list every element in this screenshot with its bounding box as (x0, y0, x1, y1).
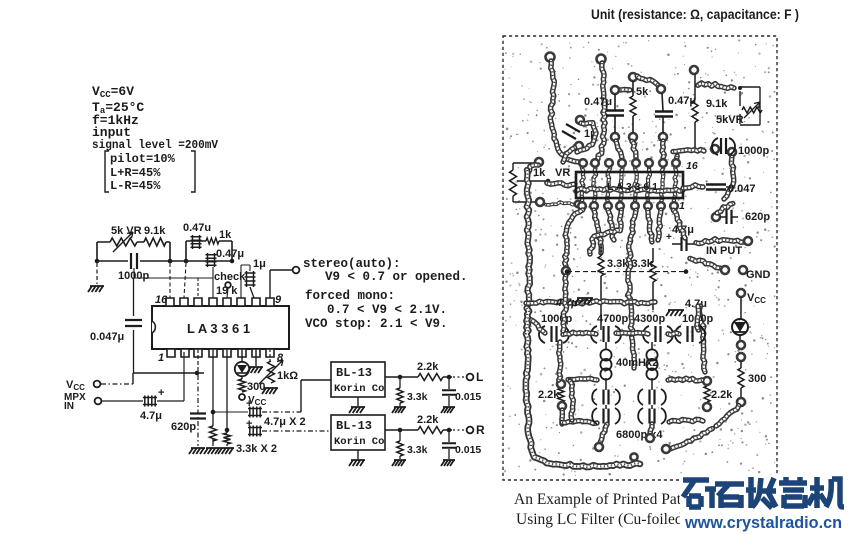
pcb trace 9.1k bottom row (673, 150, 704, 152)
pad pin12 top (632, 159, 640, 167)
wire 3.3k R (399, 430, 401, 459)
capacitor 6800p pcb 606-397 (592, 389, 597, 405)
svg-text:1kΩ: 1kΩ (277, 370, 298, 382)
svg-text:620p: 620p (745, 211, 770, 223)
capacitor 1u pcb (562, 124, 580, 139)
pcb trace caprow c (668, 333, 679, 335)
wire pin6 (241, 349, 243, 379)
svg-text:VCC: VCC (66, 379, 85, 392)
pad 6800 bot L (595, 443, 603, 451)
pad cap047R top (657, 85, 665, 93)
capacitor 4.7u x2 first (248, 407, 262, 418)
wire led col (740, 297, 741, 341)
pcb trace hook to cap (617, 87, 630, 93)
pad vcc (737, 289, 745, 297)
pad gnd2 (739, 266, 747, 274)
capacitor 0.47u pcb right (655, 112, 673, 117)
pad pin16 top (579, 159, 587, 167)
svg-text:+: + (158, 387, 164, 399)
svg-text:9.1k: 9.1k (706, 98, 728, 110)
ground row1 (575, 298, 593, 304)
pcb trace under IC pin14 (607, 168, 610, 202)
terminal VCC (94, 381, 101, 388)
resistor 5k pcb (630, 96, 636, 116)
inductor 40mH x606 (600, 349, 611, 379)
pcb trace under IC pin11 (647, 168, 650, 202)
U1 notch (152, 321, 155, 333)
svg-text:4.7μ: 4.7μ (140, 410, 162, 422)
pad pin10 top (659, 159, 667, 167)
node D (230, 259, 235, 264)
svg-text:0.47u: 0.47u (183, 222, 211, 234)
resistor 2.2k L (418, 374, 443, 381)
pad 1000p right (728, 148, 736, 156)
capacitor 620p pcb (727, 210, 732, 224)
resistor 3.3k first (210, 426, 217, 441)
ground BL-13 L (349, 407, 365, 413)
pcb trace caprow a (563, 332, 596, 334)
pcb stub pin13 (616, 141, 622, 158)
pcb trace pin5 hook (628, 210, 636, 368)
svg-text:0.47μ: 0.47μ (584, 96, 612, 108)
node 3.3k left (565, 269, 570, 274)
svg-text:VCO stop: 2.1 < V9.: VCO stop: 2.1 < V9. (305, 317, 448, 331)
wire BLL out (385, 376, 452, 378)
pcb trace row y423 (562, 421, 597, 424)
resistor 300 (239, 379, 246, 392)
pad 5k top (629, 73, 637, 81)
svg-text:stereo(auto):: stereo(auto): (303, 257, 401, 271)
terminal OL (467, 374, 474, 381)
resistor 1k ohm VR (268, 361, 275, 383)
capacitor 0.047 pcb (706, 185, 726, 190)
bracket left (105, 151, 109, 192)
pcb trace 1u left (563, 148, 575, 162)
resistor 9.1k pcb (692, 74, 698, 148)
capacitor 1000p (131, 253, 137, 269)
ground 1k ohm (262, 388, 278, 394)
pcb trace caprow left (531, 320, 545, 333)
svg-text:1μ: 1μ (253, 258, 266, 270)
terminal MPX IN (95, 398, 102, 405)
wire pin3 down (197, 349, 199, 373)
pcb trace through IC (576, 188, 683, 191)
wire pin13 (212, 278, 214, 298)
pcb trace row y380 left (568, 378, 597, 380)
ground 0.015 L (441, 407, 455, 413)
svg-text:4300p: 4300p (634, 313, 665, 325)
svg-text:pilot=10%: pilot=10% (110, 152, 176, 166)
svg-text:0.047μ: 0.047μ (90, 331, 124, 343)
ground 3.3k L (392, 407, 406, 413)
svg-text:+: + (246, 418, 252, 430)
node 1kVR wiper (546, 179, 551, 184)
svg-text:1: 1 (679, 200, 685, 212)
svg-text:0.015: 0.015 (455, 391, 481, 403)
svg-text:check: check (214, 271, 246, 283)
pcb trace row y184 (547, 183, 575, 186)
node R2 (447, 428, 452, 433)
pcb trace ic right (683, 185, 703, 188)
wire cap2 to BL2 (262, 430, 331, 432)
svg-text:forced mono:: forced mono: (305, 289, 395, 303)
wire 620p dashdot (197, 375, 199, 446)
pcb stub pin10 (662, 141, 664, 158)
pad pin6 bottom (644, 202, 652, 210)
wire check (227, 288, 228, 298)
svg-text:0.7 < V9 < 2.1V.: 0.7 < V9 < 2.1V. (327, 303, 447, 317)
wire pin8 dash (269, 349, 271, 361)
wire 1u top (241, 265, 250, 298)
pad led bot1 (737, 341, 745, 349)
pad diag end (662, 445, 670, 453)
pcb trace pin6 down (648, 210, 652, 242)
pad pin3 bottom (604, 202, 612, 210)
resistor 5kVR pcb (742, 107, 762, 113)
VR arrow on 5k (113, 232, 133, 252)
capacitor 0.015 L (442, 390, 456, 395)
pad 2.2k R top (703, 377, 711, 385)
wire top row (97, 242, 170, 261)
svg-text:VCC: VCC (747, 292, 766, 305)
pad 1kvr bot (536, 198, 544, 206)
node 3.3k-2 (225, 428, 230, 433)
capacitor 6800p pcb 606-416 (592, 408, 597, 424)
capacitor 4.7u pcb input (682, 237, 687, 251)
svg-text:Korin Co: Korin Co (334, 383, 384, 395)
capacitor 1000p pcb x690 (675, 326, 681, 343)
pcb trace pin3 down (608, 210, 614, 240)
svg-text:1k: 1k (533, 167, 546, 179)
pcb trace pin2 down (594, 210, 601, 253)
svg-text:Korin Co: Korin Co (334, 436, 384, 448)
capacitor 6800p pcb 652-416 (638, 408, 643, 424)
pcb trace right col (699, 306, 705, 372)
pcb trace 300 down (716, 406, 739, 426)
terminal OR (467, 427, 474, 434)
ground 3.3k-1 (204, 448, 220, 454)
check terminal (225, 282, 231, 288)
wire 5kVR loop (740, 87, 760, 125)
svg-text:Unit (resistance: Ω, capacitan: Unit (resistance: Ω, capacitance: F ) (591, 6, 799, 22)
capacitor 4300p pcb x658 (643, 326, 649, 343)
svg-text:L A 3 3 6 1: L A 3 3 6 1 (607, 181, 658, 193)
svg-text:5kVR: 5kVR (716, 114, 744, 126)
pcb trace pin1col down (563, 276, 567, 331)
pad P2 (597, 55, 606, 64)
pcb trace pin7 down (658, 210, 661, 240)
pcb trace left col upper (527, 170, 530, 305)
wire pin7 (255, 349, 257, 366)
wire thin row y278 (134, 267, 213, 278)
pcb trace caprow b (616, 333, 648, 334)
resistor 9.1k (144, 238, 166, 246)
svg-text:16: 16 (155, 294, 168, 306)
capacitor 0.47u second (206, 253, 217, 267)
pad 620p left (712, 213, 720, 221)
wire 0.047 left col (133, 278, 135, 373)
wire gnd dashdot (96, 263, 98, 284)
wire 0.015 L (448, 377, 450, 406)
svg-text:1000p: 1000p (541, 313, 572, 325)
wire BLR out (385, 429, 452, 431)
pad P1 (546, 53, 555, 62)
pad 9.1k top (690, 66, 698, 74)
svg-text:VR: VR (555, 167, 570, 179)
capacitor 1u (245, 271, 256, 287)
pad 2.2k L bot (558, 402, 566, 410)
svg-text:300: 300 (748, 373, 766, 385)
pcb trace 1u arc (577, 123, 596, 152)
pcb trace 6800 bot R (650, 424, 652, 434)
pad pin7 bottom (657, 202, 665, 210)
svg-text:L+R=45%: L+R=45% (110, 166, 161, 180)
svg-text:4.7μ X 2: 4.7μ X 2 (264, 416, 306, 428)
resistor 5k VR (110, 238, 137, 246)
wire vcc up (133, 373, 204, 384)
capacitor 4.7u input (143, 396, 157, 407)
wire mpx (102, 352, 184, 401)
svg-text:6800p x4: 6800p x4 (616, 429, 663, 441)
pad 300 bot (737, 398, 745, 406)
resistor 3.3k pcb 2 (650, 262, 656, 282)
capacitor 4.7u x2 second (248, 426, 262, 437)
pcb trace under IC pin12 (634, 168, 637, 202)
svg-text:IN PUT: IN PUT (706, 245, 742, 257)
wire row1 to cap (213, 411, 248, 413)
U1 top pins (166, 298, 274, 306)
pcb trace 2.2kL up (559, 342, 561, 380)
pad 1kvr top (535, 158, 543, 166)
ground row2 (666, 310, 684, 316)
wire 1kVR wiper (517, 180, 548, 182)
filter BL-13 R box (331, 415, 385, 450)
pcb trace from P1 (550, 61, 579, 162)
pcb trace under IC pin16 (581, 168, 583, 202)
LED pcb (732, 319, 748, 335)
resistor 3.3k pcb 1 (598, 256, 604, 276)
pcb trace row y302 (526, 301, 655, 304)
pad cap047L top (611, 86, 619, 94)
pcb trace row y204 (546, 202, 576, 205)
svg-text:19 k: 19 k (216, 285, 238, 297)
svg-text:L: L (476, 370, 483, 384)
svg-text:+: + (666, 232, 672, 243)
svg-text:2.2k: 2.2k (538, 389, 560, 401)
node 3.3k right (684, 269, 689, 274)
svg-text:620p: 620p (171, 421, 196, 433)
capacitor 1000p pcb x554 (539, 326, 545, 343)
capacitor 0.015 R (442, 443, 456, 448)
pad 2.2k L top (557, 380, 565, 388)
svg-text:3.3k: 3.3k (407, 444, 428, 456)
terminal Vcc pin6 (239, 394, 245, 400)
pcb trace input (696, 239, 744, 244)
capacitor 4700p pcb x606 (591, 326, 597, 343)
wire 1000p row (97, 260, 170, 262)
resistor 3.3k L (397, 388, 403, 403)
ground 3.3k-2 (218, 448, 234, 454)
svg-text:VCC: VCC (248, 395, 266, 407)
svg-text:0.015: 0.015 (455, 444, 481, 456)
svg-text:GND: GND (746, 269, 771, 281)
resistor 3.3k R (397, 441, 403, 456)
pcb trace 620p (717, 204, 733, 214)
LED D1 (235, 362, 249, 376)
wire 3.3k L (399, 377, 401, 406)
IC LA3361 pcb body (576, 172, 683, 198)
pad pin5 bottom (631, 202, 639, 210)
resistor 2.2k right pcb (704, 386, 710, 402)
pcb trace diag right (670, 429, 712, 449)
resistor 1k VR pcb (510, 170, 517, 196)
node B (168, 259, 173, 264)
svg-text:0.47μ: 0.47μ (216, 248, 244, 260)
wire 0.015 R (448, 430, 450, 459)
pcb trace gnd (690, 258, 720, 268)
svg-text:3.3k X 2: 3.3k X 2 (236, 443, 277, 455)
wire 3.3k dash row (567, 271, 686, 273)
pcb trace 1kvr join (528, 165, 539, 173)
svg-text:3.3k: 3.3k (407, 391, 428, 403)
wire cap1 to BL1 (262, 411, 301, 413)
pcb trace under IC pin15 (593, 168, 596, 202)
watermark CJK (683, 477, 844, 508)
pad cap047R bot (659, 133, 667, 141)
pad led bot2 (737, 353, 745, 361)
node C (184, 259, 189, 264)
stereo terminal (293, 267, 300, 274)
svg-text:L A 3 3 6 1: L A 3 3 6 1 (187, 321, 250, 336)
pad pin8 bottom (670, 202, 678, 210)
svg-text:5k: 5k (636, 86, 649, 98)
node L1 (398, 375, 403, 380)
capacitor 0.47u pcb left (606, 111, 624, 116)
pcb stub pin9t (676, 156, 677, 161)
filter BL-13 L box (331, 362, 385, 397)
pcb scan noise (504, 39, 776, 476)
resistor 2.2k R (418, 427, 443, 434)
node R1 (398, 428, 403, 433)
svg-text:L-R=45%: L-R=45% (110, 179, 161, 193)
wire 3.3k-1 (212, 349, 214, 446)
svg-text:1k: 1k (219, 229, 232, 241)
node A (95, 259, 100, 264)
pad 6800 bot R (646, 434, 654, 442)
svg-text:2.2k: 2.2k (417, 414, 439, 426)
pcb trace under IC pin13 (620, 168, 623, 202)
wire pin14 dash (197, 278, 199, 298)
capacitor 0.047u left (125, 320, 142, 326)
svg-text:1000p: 1000p (738, 145, 769, 157)
wire 1u to pin10 (250, 287, 254, 298)
wire pin16 dash (169, 263, 171, 298)
node 3.3k-1 (211, 410, 216, 415)
ground top-left (88, 286, 104, 292)
wire L dots (453, 376, 466, 378)
pcb trace bottom loop (526, 308, 640, 467)
svg-text:0.047: 0.047 (728, 183, 756, 195)
pad 2.2k R bot (703, 403, 711, 411)
wire vcc dashdot (101, 383, 133, 385)
pcb trace 5k to 047R (637, 76, 658, 85)
pad 1u top (576, 116, 584, 124)
pcb trace row y380 right (668, 378, 702, 381)
svg-text:BL-13: BL-13 (336, 419, 372, 433)
capacitor 620p (190, 414, 206, 419)
svg-text:2.2k: 2.2k (711, 389, 733, 401)
capacitor 6800p pcb 652-397 (638, 389, 643, 405)
pcb trace cap right up (697, 306, 699, 330)
inductor 40mH x652 (646, 349, 657, 379)
capacitor 0.47u (191, 235, 202, 249)
ground BL-13 R (349, 460, 365, 466)
pad pin2 bottom (590, 202, 598, 210)
resistor 3.3k second (224, 433, 231, 444)
ground 0.015 R (441, 460, 455, 466)
ground 3.3k R (392, 460, 406, 466)
VR arrow 1k ohm (259, 360, 283, 384)
pad 1u bot (575, 142, 583, 150)
bracket right (191, 151, 195, 192)
pad pin15 top (591, 159, 599, 167)
ground pin7 (247, 367, 263, 373)
wire 0.47u row (170, 241, 232, 261)
svg-text:signal level =200mV: signal level =200mV (92, 138, 219, 152)
op-amp U1 LA3361 body (152, 306, 289, 349)
node 5kvr (738, 86, 742, 90)
resistor 1k (206, 238, 219, 244)
svg-text:VCC=6V: VCC=6V (92, 84, 134, 100)
wire led to 300 (740, 361, 742, 368)
pcb trace 6800 bot L (600, 424, 607, 443)
svg-text:9: 9 (275, 294, 282, 306)
U1 bottom pins (167, 349, 274, 357)
svg-text:4700p: 4700p (597, 313, 628, 325)
svg-text:www.crystalradio.cn: www.crystalradio.cn (684, 513, 842, 532)
wire up to BL1 (301, 380, 331, 412)
pad 5k bot (629, 133, 637, 141)
pad pin4 bottom (616, 202, 624, 210)
pad input (744, 237, 752, 245)
capacitor 1000p pcb (712, 138, 718, 155)
svg-text:5k VR: 5k VR (111, 225, 142, 237)
ground 620p (189, 448, 205, 454)
pad pin14 top (605, 159, 613, 167)
resistor 300 pcb (738, 368, 744, 388)
pad gnd1 (721, 266, 729, 274)
pcb trace pin8 diag (673, 210, 685, 238)
svg-text:R: R (476, 423, 485, 437)
resistor 2.2k left pcb (558, 388, 564, 402)
pad cap047L bot (611, 133, 619, 141)
pcb trace pin4 down (590, 210, 622, 254)
svg-text:40mHx2: 40mHx2 (616, 357, 658, 369)
svg-text:1: 1 (158, 352, 164, 364)
pad 1000p left (711, 145, 719, 153)
svg-text:16: 16 (686, 160, 698, 172)
svg-text:3.3k 3.3k: 3.3k 3.3k (607, 258, 654, 270)
svg-text:2.2k: 2.2k (417, 361, 439, 373)
pad pin11 top (645, 159, 653, 167)
pad pin9 top (672, 159, 680, 167)
pcb trace pin1 hook (565, 210, 583, 266)
svg-text:V9 < 0.7 or opened.: V9 < 0.7 or opened. (325, 270, 468, 284)
pcb trace 2.2kL down (559, 410, 565, 424)
wire pin15 dash (184, 263, 186, 298)
pcb trace from P2 (598, 63, 605, 159)
wire 1kVR bracket (513, 163, 540, 202)
